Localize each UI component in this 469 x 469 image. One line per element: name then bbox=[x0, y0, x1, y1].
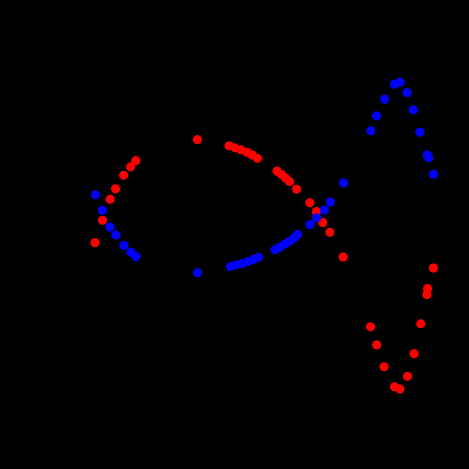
blue series bbox=[91, 78, 438, 278]
red series bbox=[90, 135, 438, 394]
